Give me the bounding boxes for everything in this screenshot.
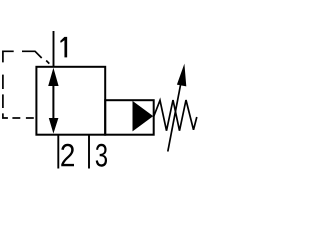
label 1 bbox=[60, 37, 67, 58]
check triangle bbox=[133, 101, 154, 131]
pilot line dash: diagonal near junction bbox=[46, 61, 49, 64]
pilot line dash: bottom-left corner bbox=[3, 113, 8, 118]
pilot line dash: bottom horizontal 2 bbox=[26, 117, 34, 119]
control arrow shaft bbox=[52, 84, 54, 119]
pilot line dash: bottom horizontal 1 bbox=[12, 117, 20, 119]
wire port 1 bbox=[53, 31, 55, 67]
wire port 3 bbox=[88, 135, 90, 169]
adjustment arrow shaft bbox=[168, 85, 181, 152]
spring bbox=[154, 100, 197, 131]
control arrow head up bbox=[48, 68, 58, 86]
adjustment arrow head bbox=[177, 64, 186, 87]
wire port 2 bbox=[57, 135, 59, 169]
spring box bbox=[105, 100, 154, 135]
pilot line dash: top-left corner bbox=[3, 51, 14, 62]
label 2 bbox=[61, 144, 74, 167]
valve body square bbox=[36, 67, 105, 135]
control arrow head down bbox=[49, 118, 59, 134]
pilot line dash: horizontal + 45deg corner bbox=[22, 51, 42, 58]
pilot line dash: left vertical mid 2 bbox=[2, 94, 4, 108]
pilot line dash: left vertical mid 1 bbox=[2, 75, 4, 89]
label 3 bbox=[96, 144, 107, 167]
